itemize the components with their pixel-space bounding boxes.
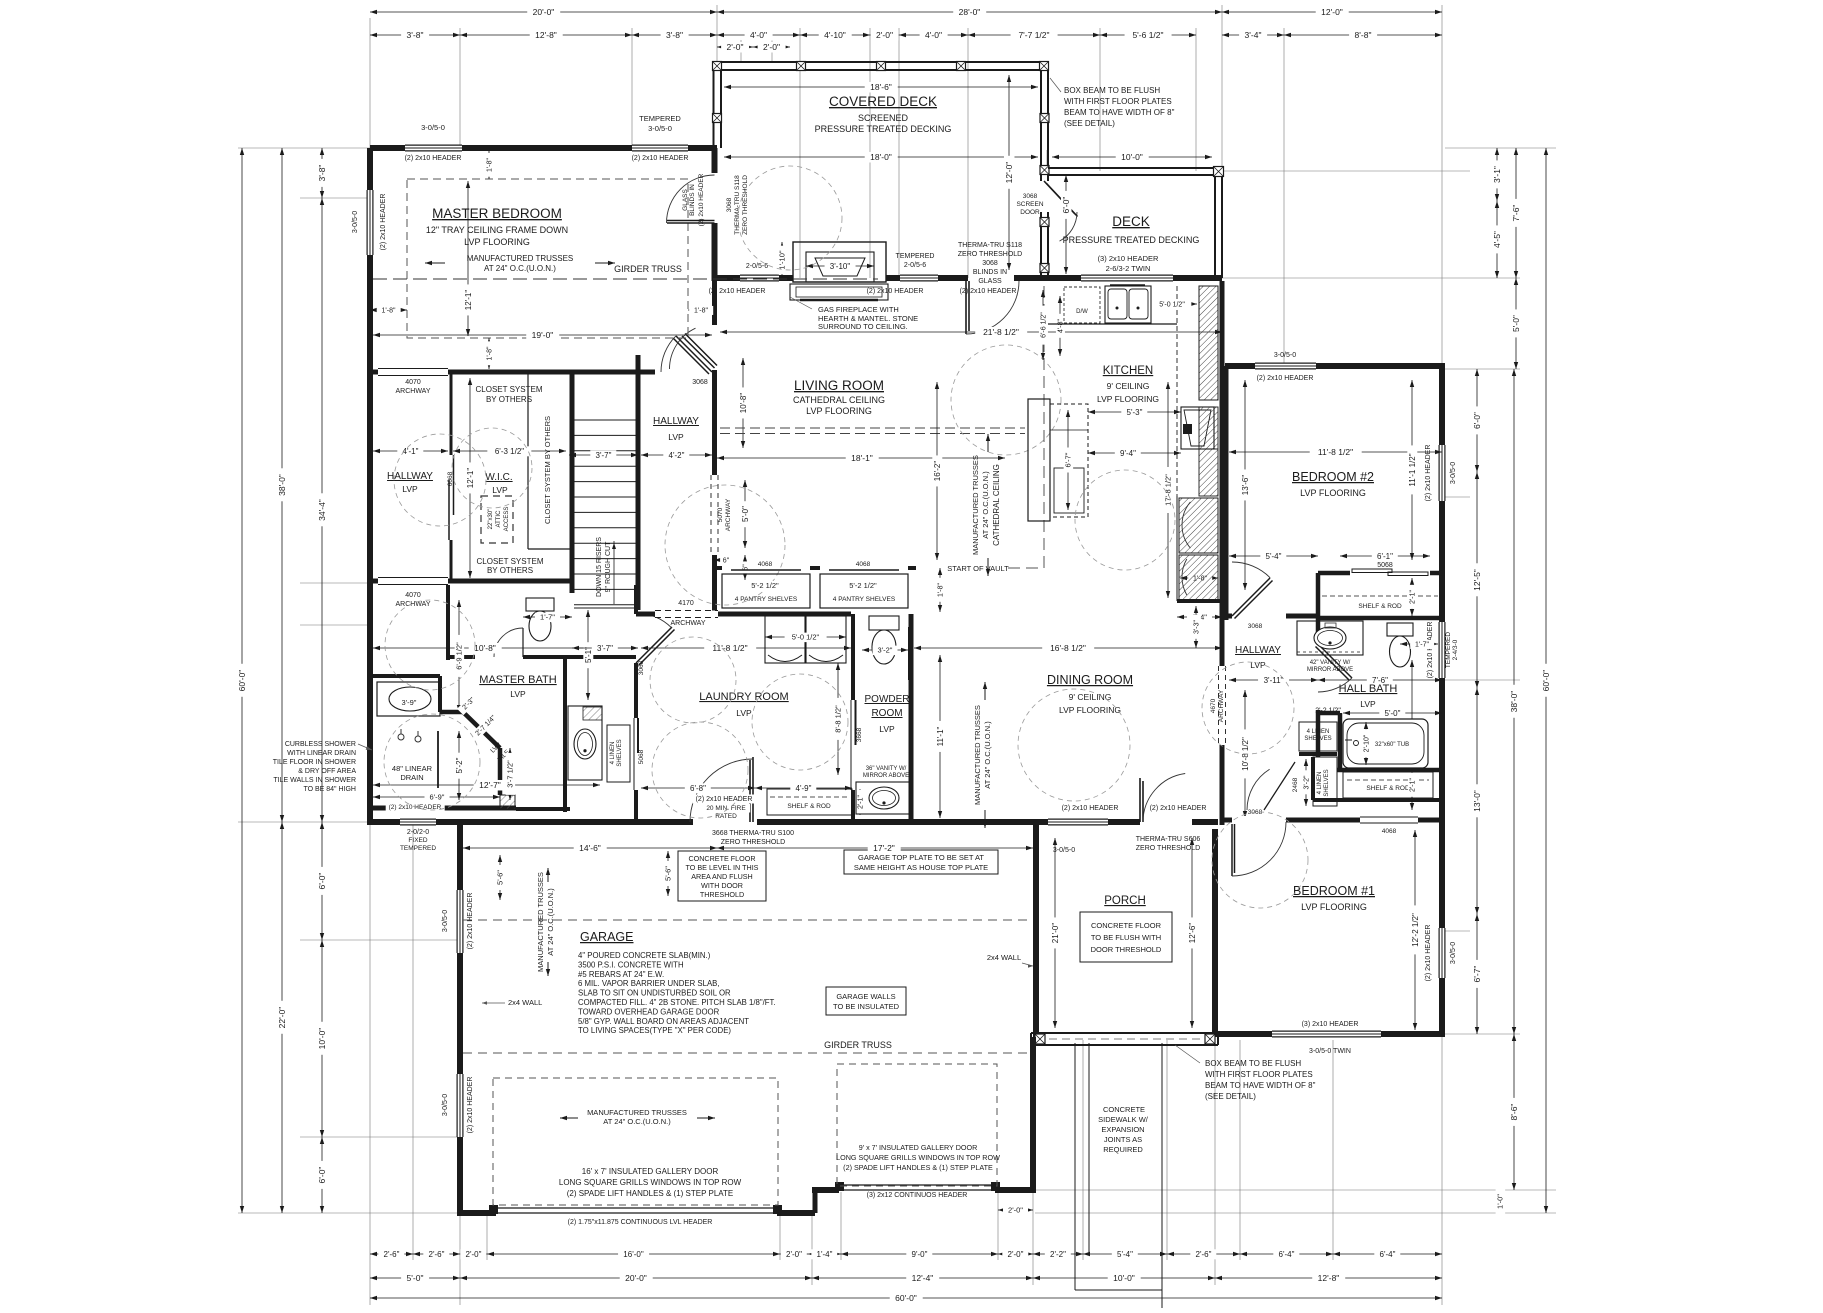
- svg-text:5'-3": 5'-3": [1127, 408, 1143, 417]
- svg-text:GIRDER TRUSS: GIRDER TRUSS: [824, 1040, 892, 1050]
- svg-text:3'-7 1/2": 3'-7 1/2": [506, 760, 515, 788]
- dim 5-0 kitchen sink: [1153, 303, 1197, 305]
- dim 2-4 kitchen: [1177, 616, 1222, 618]
- laundry cabinets: [765, 616, 805, 663]
- svg-text:LVP: LVP: [492, 485, 508, 495]
- dim 4-9 laundry: [755, 787, 852, 789]
- svg-text:12'-7": 12'-7": [479, 780, 501, 790]
- svg-text:20 MIN. FIRE: 20 MIN. FIRE: [706, 805, 746, 812]
- covered deck walls and posts: [714, 61, 1049, 63]
- svg-text:(2) 1.75"x11.875 CONTINUOUS LV: (2) 1.75"x11.875 CONTINUOUS LVL HEADER: [568, 1219, 713, 1226]
- wall bed2 bottom: [1226, 614, 1318, 619]
- dim 12-7 bath: [373, 784, 600, 786]
- dim 21-0 porch: [1054, 838, 1056, 1028]
- svg-text:FIXED: FIXED: [408, 837, 427, 844]
- svg-text:10'-0": 10'-0": [317, 1028, 327, 1050]
- pantry left: [722, 574, 810, 608]
- dim 6in pantry: [714, 559, 731, 561]
- svg-text:LAUNDRY ROOM: LAUNDRY ROOM: [699, 691, 788, 703]
- svg-text:10'-0": 10'-0": [1121, 152, 1143, 162]
- svg-text:18'-6": 18'-6": [870, 82, 892, 92]
- dim 6-0 deck right: [1065, 175, 1067, 274]
- door wc: [475, 654, 523, 660]
- svg-text:1'-7": 1'-7": [1415, 641, 1429, 648]
- kitchen ovens: [1179, 498, 1218, 553]
- svg-text:48" LINEAR: 48" LINEAR: [392, 764, 433, 773]
- svg-text:17'-2": 17'-2": [873, 843, 895, 853]
- window master top 2: [632, 145, 688, 152]
- svg-text:BOX BEAM TO BE FLUSH: BOX BEAM TO BE FLUSH: [1064, 86, 1160, 95]
- dim 12-1 wic: [469, 378, 471, 578]
- svg-text:TEMPERED: TEMPERED: [896, 253, 935, 260]
- svg-text:3'-9": 3'-9": [402, 698, 417, 707]
- svg-text:18'-1": 18'-1": [851, 453, 873, 463]
- svg-text:SCREENED: SCREENED: [858, 113, 909, 123]
- dim 13-6 bed2: [1244, 380, 1246, 590]
- svg-text:32"x60" TUB: 32"x60" TUB: [1375, 742, 1409, 748]
- svg-text:2'-1": 2'-1": [857, 795, 864, 809]
- svg-text:TO LIVING SPACES(TYPE "X" PER: TO LIVING SPACES(TYPE "X" PER CODE): [578, 1026, 731, 1035]
- svg-text:3-0/5-0 TWIN: 3-0/5-0 TWIN: [1309, 1048, 1351, 1055]
- svg-text:38'-0": 38'-0": [277, 474, 287, 496]
- svg-text:2-4/3-0: 2-4/3-0: [1452, 639, 1459, 660]
- dim 5-6 garage a: [499, 855, 501, 900]
- svg-text:7'-7 1/2": 7'-7 1/2": [1018, 30, 1049, 40]
- svg-text:19'-0": 19'-0": [532, 330, 554, 340]
- svg-text:PRESSURE TREATED DECKING: PRESSURE TREATED DECKING: [1063, 235, 1200, 245]
- svg-text:ZERO THRESHOLD: ZERO THRESHOLD: [742, 175, 749, 235]
- kitchen sink counter: [1048, 323, 1177, 325]
- wall hall living: [712, 278, 717, 614]
- window garage left 2: [457, 1074, 464, 1137]
- svg-text:9' CEILING: 9' CEILING: [1069, 692, 1112, 702]
- svg-text:6'-4": 6'-4": [1380, 1250, 1396, 1259]
- wall house right: [1439, 366, 1445, 1037]
- svg-text:WITH FIRST FLOOR PLATES: WITH FIRST FLOOR PLATES: [1064, 97, 1172, 106]
- dim 3-1 right: [1496, 148, 1498, 201]
- dim bottom row 1: [370, 1253, 413, 1255]
- svg-text:4 PANTRY SHELVES: 4 PANTRY SHELVES: [735, 596, 798, 603]
- svg-text:3-0/5-0: 3-0/5-0: [442, 910, 449, 932]
- svg-text:5068: 5068: [638, 749, 645, 764]
- dim 6-3 wic: [453, 450, 566, 452]
- window dining bottom: [1048, 819, 1108, 826]
- dim 1-8 tray a: [488, 151, 490, 179]
- svg-text:BY OTHERS: BY OTHERS: [486, 395, 532, 404]
- closet bed1 top: [1343, 772, 1433, 798]
- svg-text:5/8" GYP. WALL BOARD ON AREAS: 5/8" GYP. WALL BOARD ON AREAS ADJACENT: [578, 1017, 749, 1026]
- archway master 4070: [378, 369, 448, 376]
- dim 38-0 right: [1513, 369, 1515, 1034]
- dim bottom 20-0: [460, 1277, 812, 1279]
- svg-text:AT 24" O.C.(U.O.N.): AT 24" O.C.(U.O.N.): [603, 1117, 671, 1126]
- svg-text:4" POURED CONCRETE SLAB(MIN.): 4" POURED CONCRETE SLAB(MIN.): [578, 951, 711, 960]
- svg-text:3'-2": 3'-2": [1303, 775, 1310, 789]
- dim 6-6 living right: [1042, 290, 1044, 360]
- dim 1-8 tray b: [488, 338, 490, 369]
- wall garage right: [1030, 1037, 1036, 1190]
- wall laundry top: [636, 612, 851, 617]
- wall house bottom middle: [463, 819, 700, 825]
- svg-text:TILE WALLS IN SHOWER: TILE WALLS IN SHOWER: [273, 777, 356, 784]
- dim 3-11 hall right: [1229, 679, 1318, 681]
- svg-text:3'-11": 3'-11": [1264, 676, 1284, 685]
- svg-text:12'-4": 12'-4": [912, 1273, 934, 1283]
- dim 10-8 bath: [373, 647, 594, 649]
- clearance circle bath b: [384, 714, 480, 810]
- svg-text:3500 P.S.I. CONCRETE WITH: 3500 P.S.I. CONCRETE WITH: [578, 960, 684, 969]
- svg-text:4068: 4068: [1382, 828, 1397, 835]
- dim 4-8 living right: [1059, 296, 1061, 356]
- dim 11-8 bed2: [1229, 451, 1442, 453]
- svg-text:AT 24" O.C.(U.O.N.): AT 24" O.C.(U.O.N.): [546, 888, 555, 956]
- svg-text:ARCHWAY: ARCHWAY: [396, 601, 431, 608]
- wall porch bottom: [1031, 1032, 1218, 1034]
- svg-text:22"x30": 22"x30": [488, 509, 494, 530]
- svg-text:5070: 5070: [717, 507, 724, 522]
- svg-text:4070: 4070: [405, 592, 421, 599]
- wall bath laundry: [634, 585, 638, 614]
- door hallbath: [1318, 644, 1352, 678]
- svg-text:(2) 2x10 HEADER: (2) 2x10 HEADER: [1062, 805, 1119, 812]
- shower: [437, 731, 439, 788]
- attic access: [481, 496, 513, 543]
- dim 11-1 dining: [939, 655, 941, 818]
- svg-text:1'-0": 1'-0": [1496, 1194, 1505, 1209]
- window bed2 right: [1439, 445, 1446, 501]
- door bath laundry 3068: [636, 627, 672, 663]
- dim 4-1 hall: [373, 450, 448, 452]
- wall bedroom1 bottom: [1218, 1031, 1445, 1037]
- svg-text:ZERO THRESHOLD: ZERO THRESHOLD: [1136, 845, 1200, 852]
- dim bottom 5-0: [370, 1277, 460, 1279]
- svg-text:10'-8": 10'-8": [474, 643, 496, 653]
- window house left: [367, 190, 374, 255]
- vanity powder: [856, 782, 912, 814]
- svg-text:W.I.C.: W.I.C.: [485, 472, 512, 483]
- svg-text:THRESHOLD: THRESHOLD: [700, 890, 744, 899]
- svg-text:3'-3": 3'-3": [1193, 620, 1200, 634]
- laundry closet: [767, 789, 852, 815]
- svg-text:SIDEWALK W/: SIDEWALK W/: [1098, 1115, 1149, 1124]
- svg-text:ARCHWAY: ARCHWAY: [396, 388, 431, 395]
- svg-text:2'-0": 2'-0": [727, 42, 744, 52]
- svg-text:60'-0": 60'-0": [895, 1293, 917, 1303]
- svg-text:& DRY OFF AREA: & DRY OFF AREA: [298, 768, 356, 775]
- girder truss dashed: [373, 278, 878, 280]
- svg-text:LVP: LVP: [668, 432, 684, 442]
- dim 12-0 top: [1222, 11, 1442, 13]
- archway 5070 hall: [711, 475, 718, 555]
- svg-text:GARAGE TOP PLATE TO BE SET AT: GARAGE TOP PLATE TO BE SET AT: [858, 853, 984, 862]
- svg-text:1'-10": 1'-10": [778, 250, 787, 269]
- dim 1-7 wc: [523, 616, 572, 618]
- svg-text:9" ROUGH CUT: 9" ROUGH CUT: [605, 541, 612, 592]
- svg-text:MASTER BEDROOM: MASTER BEDROOM: [432, 206, 562, 221]
- door master deck: [711, 173, 719, 223]
- clearance circle dining: [1018, 689, 1130, 801]
- dim 3-7 stairs: [569, 454, 638, 456]
- dim 10-0 left: [321, 940, 323, 1137]
- dim 3-7half bath: [509, 748, 511, 800]
- dim bottom 60-0: [370, 1297, 1442, 1299]
- svg-text:JOINTS AS: JOINTS AS: [1104, 1135, 1142, 1144]
- svg-text:5'-0": 5'-0": [741, 506, 750, 522]
- svg-text:LVP FLOORING: LVP FLOORING: [1097, 394, 1159, 404]
- threshold dark: [516, 807, 570, 811]
- svg-text:TO BE FLUSH WITH: TO BE FLUSH WITH: [1091, 933, 1161, 942]
- sidewalk lines: [1074, 1043, 1076, 1290]
- svg-text:3'-7": 3'-7": [596, 451, 612, 460]
- svg-text:4 LINEN: 4 LINEN: [1307, 729, 1330, 735]
- wall wic left: [450, 372, 453, 455]
- dim 7-6 right: [1515, 148, 1517, 278]
- svg-text:2'-6": 2'-6": [429, 1250, 445, 1259]
- svg-text:1'-8": 1'-8": [486, 346, 493, 360]
- svg-text:BEAM TO HAVE WIDTH OF 8": BEAM TO HAVE WIDTH OF 8": [1064, 108, 1175, 117]
- svg-text:6'-6 1/2": 6'-6 1/2": [1040, 312, 1047, 338]
- svg-text:12'-0": 12'-0": [1321, 7, 1343, 17]
- svg-text:LONG SQUARE GRILLS WINDOWS IN: LONG SQUARE GRILLS WINDOWS IN TOP ROW: [559, 1178, 742, 1187]
- wall tub left: [1338, 713, 1343, 770]
- window garage left 1: [457, 890, 464, 953]
- dim row 2 top: [370, 34, 460, 36]
- fireplace: [793, 242, 886, 282]
- svg-text:6'-9": 6'-9": [430, 793, 445, 802]
- wall porch right: [1212, 829, 1218, 1037]
- wall bed1 top: [1222, 818, 1442, 823]
- svg-text:WITH FIRST FLOOR PLATES: WITH FIRST FLOOR PLATES: [1205, 1070, 1313, 1079]
- svg-text:12'-1": 12'-1": [466, 468, 475, 489]
- dim 2-10 tub: [1365, 722, 1367, 765]
- svg-text:3'-8": 3'-8": [407, 30, 424, 40]
- dim 13-0 right: [1476, 688, 1478, 914]
- kitchen hatch mid: [1199, 449, 1218, 496]
- dim 5-6 garage b: [667, 851, 669, 896]
- svg-text:(2) 2x10 HEADER: (2) 2x10 HEADER: [1257, 375, 1314, 382]
- svg-text:DECK: DECK: [1112, 214, 1150, 229]
- svg-text:10'-0": 10'-0": [1113, 1273, 1135, 1283]
- svg-text:2'-1": 2'-1": [1409, 778, 1416, 792]
- dim 12-6 porch: [1191, 838, 1193, 1028]
- svg-text:MIRROR ABOVE: MIRROR ABOVE: [863, 773, 909, 779]
- screen door covered deck: [1039, 181, 1051, 212]
- label fire door: [693, 795, 756, 804]
- svg-text:5'-0 1/2": 5'-0 1/2": [1159, 301, 1185, 308]
- dim 12-2 bed1: [1414, 830, 1416, 1030]
- dim 14-6 garage: [463, 847, 717, 849]
- svg-text:11'-8 1/2": 11'-8 1/2": [1318, 447, 1353, 457]
- svg-text:LVP: LVP: [402, 484, 418, 494]
- svg-text:3-0/5-0: 3-0/5-0: [442, 1094, 449, 1116]
- dim 3-2 linen: [1305, 759, 1307, 806]
- garage truss dashed: [463, 919, 1030, 921]
- svg-text:6'-3 1/2": 6'-3 1/2": [495, 447, 524, 456]
- svg-text:ATTIC: ATTIC: [496, 510, 502, 528]
- dim 6-7 island: [1067, 410, 1069, 510]
- svg-text:BEAM TO HAVE WIDTH OF 8": BEAM TO HAVE WIDTH OF 8": [1205, 1081, 1316, 1090]
- svg-text:LVP FLOORING: LVP FLOORING: [1301, 902, 1367, 912]
- garage door right dashed: [837, 1064, 997, 1186]
- toilet hallbath: [1387, 623, 1413, 636]
- svg-text:5'-0": 5'-0": [407, 1273, 424, 1283]
- wall garage bottom with door openings: [460, 1210, 496, 1216]
- wall stairs right: [636, 355, 641, 610]
- svg-text:ARCHWAY: ARCHWAY: [1218, 689, 1225, 722]
- svg-text:3068: 3068: [1248, 623, 1263, 630]
- svg-text:ROOM: ROOM: [871, 708, 902, 719]
- svg-text:16'-2": 16'-2": [933, 461, 942, 482]
- svg-text:SHELF & ROD: SHELF & ROD: [1366, 785, 1410, 792]
- dim 6in hall: [744, 555, 746, 580]
- dim 3-8 left: [321, 148, 323, 198]
- wall powder right: [909, 614, 914, 822]
- svg-text:5'-4": 5'-4": [1117, 1250, 1133, 1259]
- svg-text:(2) 2x10 HEADER: (2) 2x10 HEADER: [709, 288, 766, 295]
- svg-text:3-0/5-0: 3-0/5-0: [1450, 942, 1457, 964]
- svg-text:4'-8": 4'-8": [1057, 319, 1064, 333]
- svg-text:2-0/5-6: 2-0/5-6: [904, 262, 926, 269]
- svg-text:3-0/5-0: 3-0/5-0: [352, 211, 359, 233]
- dim 2-1 laundry: [859, 789, 861, 815]
- svg-text:4'-5": 4'-5": [1492, 231, 1502, 248]
- svg-text:BLINDS IN: BLINDS IN: [973, 269, 1007, 276]
- svg-text:THERMA-TRU S606: THERMA-TRU S606: [1136, 836, 1201, 843]
- svg-text:28'-0": 28'-0": [959, 7, 981, 17]
- svg-text:DOOR: DOOR: [1020, 209, 1040, 216]
- svg-text:PRESSURE TREATED DECKING: PRESSURE TREATED DECKING: [815, 124, 952, 134]
- svg-text:(3) 2x12 CONTINUOS HEADER: (3) 2x12 CONTINUOS HEADER: [867, 1192, 968, 1199]
- svg-text:(2) 2x10 HEADER: (2) 2x10 HEADER: [632, 155, 689, 162]
- svg-text:SURROUND TO CEILING.: SURROUND TO CEILING.: [818, 322, 908, 331]
- svg-text:2'-10": 2'-10": [1363, 734, 1370, 752]
- svg-text:START OF VAULT: START OF VAULT: [947, 564, 1009, 573]
- bed2 closet: [1322, 595, 1438, 597]
- dim 5-0 right b: [1515, 278, 1517, 369]
- girder truss garage: [463, 1052, 1030, 1054]
- svg-text:13'-6": 13'-6": [1241, 475, 1250, 496]
- wall house bottom left: [370, 819, 463, 825]
- wall closet bottom: [370, 579, 572, 584]
- dim 17-2 garage: [717, 847, 1033, 849]
- svg-text:6'-4": 6'-4": [1279, 1250, 1295, 1259]
- tray ceiling dashed: [407, 179, 688, 338]
- wall bed2 west: [1224, 366, 1229, 620]
- vanity bath right: [568, 706, 602, 780]
- window fixed bottom: [400, 819, 436, 826]
- living dashed beam: [720, 427, 1025, 429]
- dim 28-0 top: [717, 11, 1222, 13]
- svg-text:4 LINEN: 4 LINEN: [610, 742, 616, 765]
- svg-text:AT 24" O.C.(U.O.N.): AT 24" O.C.(U.O.N.): [983, 721, 992, 789]
- clearance circle bed1: [1212, 812, 1308, 908]
- wall master bottom: [370, 370, 717, 375]
- dim 1-8 tray d: [688, 309, 714, 311]
- svg-text:10'-8": 10'-8": [739, 393, 748, 414]
- dim diag: [457, 692, 480, 715]
- clearance circle kitchen: [1075, 470, 1175, 570]
- linen hallbath 1: [1299, 722, 1337, 751]
- svg-text:9' x 7' INSULATED GALLERY DOOR: 9' x 7' INSULATED GALLERY DOOR: [859, 1143, 978, 1152]
- svg-text:(2) 2x10 HEADER: (2) 2x10 HEADER: [1425, 445, 1432, 502]
- svg-text:4 PANTRY SHELVES: 4 PANTRY SHELVES: [833, 596, 896, 603]
- svg-text:(SEE DETAIL): (SEE DETAIL): [1205, 1092, 1256, 1101]
- dim 38-0 left: [281, 148, 283, 822]
- svg-text:GARAGE: GARAGE: [580, 930, 634, 944]
- window living top 2: [900, 275, 938, 282]
- svg-text:3668: 3668: [856, 727, 863, 742]
- clearance circle laundry c: [752, 674, 848, 770]
- svg-text:(2) 2x10 HEADER: (2) 2x10 HEADER: [1150, 805, 1207, 812]
- svg-text:3'-1": 3'-1": [1492, 166, 1502, 183]
- wall closet bed1 bottom: [1313, 798, 1442, 802]
- svg-text:4'-1": 4'-1": [403, 447, 419, 456]
- svg-text:2-0/5-6: 2-0/5-6: [746, 263, 768, 270]
- svg-text:POWDER: POWDER: [865, 694, 910, 705]
- toilet powder: [869, 616, 899, 630]
- svg-text:2'-0": 2'-0": [876, 30, 893, 40]
- svg-text:1'-8": 1'-8": [486, 158, 493, 172]
- svg-text:6'-1": 6'-1": [1377, 552, 1393, 561]
- svg-text:1'-4": 1'-4": [817, 1250, 833, 1259]
- dim 21-8 living: [720, 331, 1222, 333]
- svg-text:4'-9": 4'-9": [796, 784, 812, 793]
- svg-text:5'-0": 5'-0": [1511, 315, 1521, 332]
- clearance circle bath a: [385, 600, 475, 690]
- svg-text:AT 24" O.C.(U.O.N.): AT 24" O.C.(U.O.N.): [981, 471, 990, 539]
- svg-text:(SEE DETAIL): (SEE DETAIL): [1064, 119, 1115, 128]
- svg-text:2x4 WALL: 2x4 WALL: [508, 998, 542, 1007]
- wall living top: [714, 275, 794, 281]
- svg-text:3068: 3068: [1023, 193, 1038, 200]
- svg-text:#5 REBARS AT 24" E.W.: #5 REBARS AT 24" E.W.: [578, 970, 664, 979]
- svg-text:TEMPERED: TEMPERED: [639, 114, 681, 123]
- dim 16-2 living: [936, 382, 938, 560]
- svg-text:LVP: LVP: [1250, 660, 1266, 670]
- archway 4170: [655, 611, 718, 618]
- svg-text:DOOR THRESHOLD: DOOR THRESHOLD: [1091, 945, 1162, 954]
- svg-text:1'-8": 1'-8": [382, 307, 396, 314]
- wall bath mid: [370, 674, 440, 678]
- svg-text:5'-6 1/2": 5'-6 1/2": [1132, 30, 1163, 40]
- svg-text:REQUIRED: REQUIRED: [1103, 1145, 1143, 1154]
- svg-text:4068: 4068: [758, 561, 773, 568]
- porch note box: [1080, 912, 1172, 962]
- svg-text:12'-1": 12'-1": [464, 290, 473, 311]
- svg-text:TEMPERED: TEMPERED: [400, 845, 436, 852]
- svg-text:3068: 3068: [692, 379, 708, 386]
- svg-text:3'-8": 3'-8": [666, 30, 683, 40]
- svg-text:LVP: LVP: [879, 724, 895, 734]
- svg-text:6 MIL. VAPOR BARRIER UNDER SLA: 6 MIL. VAPOR BARRIER UNDER SLAB,: [578, 979, 720, 988]
- svg-text:3-0/5-0: 3-0/5-0: [1053, 847, 1075, 854]
- svg-text:3'-4": 3'-4": [1245, 30, 1262, 40]
- svg-text:(2) 2x10 HEADER: (2) 2x10 HEADER: [696, 796, 753, 803]
- pocket door 5068: [633, 718, 635, 790]
- concrete floor box: [678, 851, 766, 901]
- svg-text:42" VANITY W/: 42" VANITY W/: [1310, 660, 1351, 666]
- svg-text:(2) SPADE LIFT HANDLES & (1) S: (2) SPADE LIFT HANDLES & (1) STEP PLATE: [843, 1163, 993, 1172]
- svg-text:2x4 WALL: 2x4 WALL: [987, 953, 1021, 962]
- dim 5-1 bath: [587, 610, 589, 700]
- svg-text:9'-0": 9'-0": [912, 1250, 928, 1259]
- wall dining bottom: [1036, 819, 1218, 825]
- kitchen right counter hatch: [1199, 286, 1218, 400]
- wall garage left: [457, 822, 463, 1216]
- wall bed2 closet top: [1318, 571, 1442, 576]
- dim 2-1 closet bed1: [1411, 772, 1413, 798]
- svg-text:DINING ROOM: DINING ROOM: [1047, 673, 1133, 687]
